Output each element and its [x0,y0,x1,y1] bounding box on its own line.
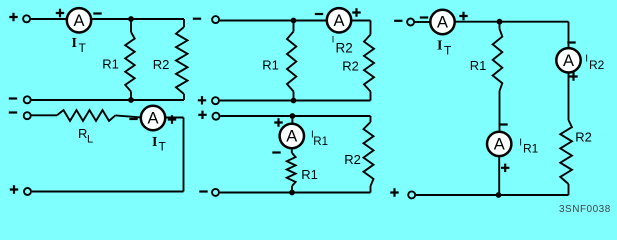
svg-text:R1: R1 [301,167,318,182]
svg-text:A: A [286,128,297,146]
svg-text:A: A [73,12,84,30]
svg-text:T: T [79,41,87,55]
svg-text:R2: R2 [589,58,605,72]
svg-text:A: A [333,12,344,30]
svg-text:R2: R2 [153,57,170,72]
svg-text:R1: R1 [313,136,328,148]
svg-text:3SNF0038: 3SNF0038 [559,204,611,215]
svg-text:R2: R2 [344,152,361,167]
svg-text:I: I [437,39,442,54]
svg-text:R2: R2 [342,59,359,74]
svg-text:R2: R2 [336,41,353,56]
svg-text:I: I [152,135,157,150]
svg-text:A: A [147,110,158,128]
svg-text:R1: R1 [102,57,119,72]
svg-text:R: R [78,126,87,141]
svg-text:T: T [444,44,452,58]
svg-text:R2: R2 [575,130,592,145]
svg-text:A: A [437,14,448,32]
svg-text:A: A [494,136,505,154]
svg-text:I: I [519,138,522,149]
svg-text:I: I [72,36,77,51]
svg-text:R1: R1 [470,58,487,73]
svg-text:R1: R1 [523,142,539,156]
svg-text:R1: R1 [262,58,279,73]
svg-text:A: A [563,52,574,70]
svg-text:I: I [585,54,588,65]
svg-text:I: I [332,35,335,45]
svg-text:T: T [159,140,167,154]
svg-text:L: L [87,134,93,146]
